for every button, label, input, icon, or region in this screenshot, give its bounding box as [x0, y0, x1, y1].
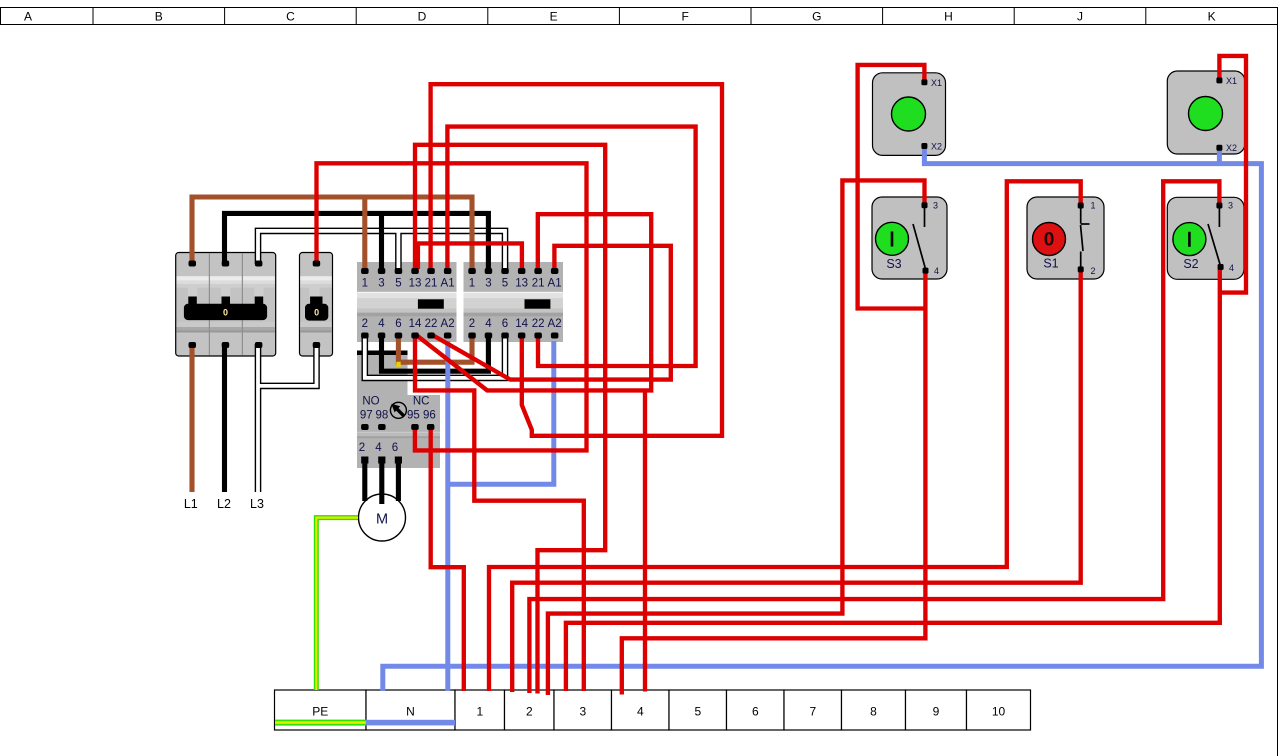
svg-text:1: 1	[362, 278, 368, 290]
pin dots: Q1	[189, 261, 321, 349]
terminal 6 cell	[727, 690, 785, 730]
wire blue N: terminal N loop to lamp H1.X2	[383, 147, 1262, 691]
wire black: branch junction to K1.3	[379, 213, 384, 270]
svg-text:13: 13	[409, 278, 422, 290]
junction dot (yellow) on brown wire at overload input	[396, 362, 400, 367]
overload reset symbol	[390, 402, 406, 418]
wire red: K1.13 to K2.13	[418, 243, 522, 269]
terminal strip labels PE N 1-10	[312, 705, 1005, 719]
contactor K2	[464, 262, 564, 342]
wire red: F1.1 top feed to overload 95	[317, 163, 587, 450]
wire red: S3.4 to terminal 4	[622, 270, 926, 695]
svg-text:3: 3	[579, 705, 586, 719]
svg-text:10: 10	[992, 705, 1006, 719]
svg-text:X1: X1	[931, 78, 942, 88]
wire grey core: Q1.5 top to K1.5 and K2.5	[258, 231, 505, 270]
svg-text:B: B	[155, 10, 163, 24]
svg-text:3: 3	[378, 278, 384, 290]
wire black: Q1.4 bottom to node L2	[222, 344, 227, 492]
svg-text:J: J	[1077, 10, 1083, 24]
svg-text:1: 1	[476, 705, 483, 719]
svg-text:A: A	[24, 10, 32, 24]
terminal 10 cell	[967, 690, 1031, 730]
wire blue N: K2.A2 elbow to K1.A2 riser	[450, 341, 554, 484]
wire red: terminal 3 to S2.4	[566, 269, 1220, 692]
wire black: overload 6 to motor W	[396, 460, 401, 501]
sheet frame right border	[1277, 25, 1279, 756]
wire black: K1.4 to overload input and K2.4	[382, 334, 489, 371]
svg-text:2: 2	[526, 705, 533, 719]
svg-text:22: 22	[532, 318, 545, 330]
svg-text:X2: X2	[931, 141, 942, 151]
wire red: K1.13 to terminal 2	[415, 145, 605, 694]
wire grey core: F1.2 bottom to L3 junction	[258, 344, 317, 386]
svg-text:L2: L2	[217, 497, 231, 511]
terminal PE cell	[275, 690, 367, 730]
wire red: lamp H1.X1 loop to S3.4 riser	[858, 65, 926, 309]
terminal strip X1	[275, 690, 1031, 730]
terminal 9 cell	[906, 690, 967, 730]
wire red: K1.14 to K2.21	[415, 214, 651, 390]
wire grey outline: K1.2 to overload input and K2.6	[365, 334, 505, 378]
svg-text:5: 5	[502, 278, 508, 290]
svg-text:4: 4	[934, 266, 939, 276]
terminal 5 cell	[669, 690, 727, 730]
svg-text:0: 0	[314, 308, 319, 318]
terminal 4 cell	[612, 690, 670, 730]
svg-text:F: F	[682, 10, 689, 24]
wire brown: branch junction to K1.1	[362, 197, 367, 270]
wire red: K1.14 to terminal 3	[415, 334, 584, 691]
svg-text:3: 3	[1228, 201, 1233, 211]
wire red: S3.3 to terminal 2	[548, 180, 925, 695]
svg-text:2: 2	[469, 318, 475, 330]
svg-text:0: 0	[1044, 230, 1055, 251]
svg-text:2: 2	[362, 318, 368, 330]
push button S2 (NO, green)	[1167, 197, 1244, 279]
svg-text:6: 6	[502, 318, 508, 330]
svg-text:95: 95	[407, 410, 420, 422]
svg-text:4: 4	[378, 318, 385, 330]
svg-text:NC: NC	[413, 396, 430, 408]
terminal 8 cell	[842, 690, 906, 730]
svg-text:21: 21	[532, 278, 545, 290]
svg-text:6: 6	[395, 318, 401, 330]
svg-text:98: 98	[376, 410, 389, 422]
svg-text:14: 14	[515, 318, 528, 330]
terminal 1 cell	[455, 690, 505, 730]
header column letters A-K	[24, 10, 1216, 24]
wire blue N: K1.A2 down to terminal N	[445, 341, 450, 691]
svg-text:8: 8	[870, 705, 877, 719]
svg-text:9: 9	[933, 705, 940, 719]
svg-text:A1: A1	[441, 278, 455, 290]
terminal N cell	[366, 690, 455, 730]
svg-text:S2: S2	[1183, 257, 1198, 271]
svg-text:G: G	[812, 10, 821, 24]
svg-text:L1: L1	[184, 497, 198, 511]
terminal 7 cell	[784, 690, 842, 730]
svg-text:4: 4	[637, 705, 644, 719]
K2 pin number labels	[469, 278, 562, 330]
motor M	[359, 494, 406, 541]
svg-text:14: 14	[409, 318, 422, 330]
svg-text:4: 4	[375, 442, 382, 454]
header row	[0, 7, 1278, 25]
svg-text:L3: L3	[250, 497, 264, 511]
svg-text:C: C	[286, 10, 295, 24]
wire red: S2.3 to terminal 2	[529, 181, 1219, 693]
svg-text:H: H	[944, 10, 953, 24]
svg-text:K: K	[1208, 10, 1216, 24]
wire red: lamp H2.X1 loop to S2.4	[1218, 56, 1246, 293]
wire grey outline: Q1.6 bottom to node L3	[255, 344, 262, 492]
wire black: overload 2 to motor U	[362, 460, 367, 501]
svg-text:S1: S1	[1043, 256, 1058, 270]
svg-text:96: 96	[423, 410, 436, 422]
svg-text:5: 5	[395, 278, 401, 290]
svg-text:6: 6	[752, 705, 759, 719]
svg-text:D: D	[418, 10, 427, 24]
svg-text:4: 4	[485, 318, 492, 330]
pin dots: F1	[313, 261, 321, 267]
svg-text:13: 13	[515, 278, 528, 290]
svg-text:4: 4	[1229, 263, 1234, 273]
svg-text:E: E	[550, 10, 558, 24]
wire brown: Q1.2 bottom to node L1	[189, 344, 194, 492]
indicator lamp H1	[873, 73, 946, 156]
wire brown: Q1.1 top to K1.1 and K2.1	[192, 197, 472, 270]
wire red: S1.2 to terminal 2	[512, 269, 1080, 693]
svg-text:A2: A2	[441, 318, 455, 330]
wire red: K1.A1 coil to K2.22 interlock	[447, 127, 695, 366]
svg-text:X2: X2	[1226, 143, 1237, 153]
wire grey outline: branch junction to K1.5	[395, 231, 402, 270]
svg-text:M: M	[376, 512, 388, 528]
overload bottom pin caps	[361, 457, 368, 464]
wire red: terminal 1 to stop button S1.1	[489, 181, 1081, 691]
push button S3 (NO, green)	[872, 197, 947, 279]
wire red: overload 96 to terminal 1	[431, 428, 464, 691]
svg-text:A2: A2	[548, 318, 562, 330]
wire grey outline: Q1.5 top to K1.5 and K2.5	[258, 231, 505, 270]
wire red: K1.21 to K2.14	[431, 84, 722, 436]
wire green-yellow PE yellow core stripe	[316, 518, 358, 690]
circuit breaker Q1 (3-pole)	[176, 253, 276, 357]
svg-text:3: 3	[485, 278, 491, 290]
K1 pin number labels	[362, 278, 455, 330]
pin dots: lamps and buttons	[921, 77, 1223, 273]
pin dots: K1	[361, 268, 451, 339]
terminal 3 cell	[554, 690, 612, 730]
wire red: branch K1.14/K2.21 net to terminal 4	[643, 390, 647, 691]
wire black: overload 4 to motor V	[379, 460, 384, 504]
wire grey outline: F1.2 bottom to L3 junction	[258, 344, 317, 386]
WIRES	[258, 231, 505, 492]
svg-text:7: 7	[809, 705, 816, 719]
wire red: K1.22 interlock to K2.A1 coil	[431, 246, 671, 380]
svg-text:S3: S3	[886, 257, 901, 271]
svg-text:1: 1	[469, 278, 475, 290]
svg-text:0: 0	[223, 308, 228, 318]
N terminal blue underline	[366, 720, 455, 726]
svg-text:21: 21	[425, 278, 438, 290]
svg-text:97: 97	[360, 410, 373, 422]
circuit breaker F1 (1-pole)	[300, 253, 333, 357]
wire green-yellow PE: motor frame to terminal PE	[316, 518, 358, 690]
overload relay F2	[357, 351, 440, 469]
terminal 2 cell	[505, 690, 555, 730]
wire grey core: K1.2 to overload input and K2.6	[365, 334, 505, 378]
svg-text:2: 2	[1091, 266, 1096, 276]
svg-text:X1: X1	[1226, 76, 1237, 86]
contactor K1	[357, 262, 457, 342]
indicator lamp H2	[1167, 71, 1245, 154]
svg-text:6: 6	[392, 442, 398, 454]
wire brown: K1.6 to overload input and K2.2	[398, 334, 472, 362]
pin dots: K2	[468, 268, 558, 339]
svg-text:N: N	[406, 705, 415, 719]
push button S1 (NC, red)	[1027, 197, 1104, 279]
svg-text:A1: A1	[548, 278, 562, 290]
PE terminal green-yellow underline	[275, 720, 366, 726]
svg-text:2: 2	[359, 442, 365, 454]
pin dots: F2 overload	[361, 424, 434, 430]
svg-text:3: 3	[933, 201, 938, 211]
wire black: Q1.3 top to K1.3 and K2.3	[225, 213, 489, 270]
wire blue N: stub to lamp H2.X2	[1217, 149, 1222, 164]
svg-text:22: 22	[425, 318, 438, 330]
wire grey core: branch junction to K1.5	[396, 231, 400, 270]
wire grey core: Q1.6 bottom to node L3	[256, 344, 260, 492]
node labels L1 L2 L3	[184, 497, 264, 511]
svg-text:1: 1	[1091, 201, 1096, 211]
svg-text:PE: PE	[312, 705, 328, 719]
svg-text:5: 5	[694, 705, 701, 719]
svg-text:NO: NO	[362, 396, 379, 408]
overload F2 NO/NC and pin labels	[359, 396, 436, 455]
